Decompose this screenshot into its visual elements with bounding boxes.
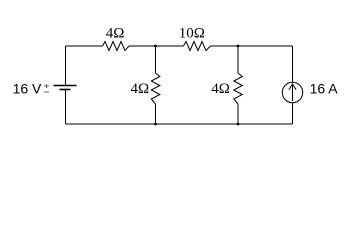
svg-text:4Ω: 4Ω	[211, 81, 230, 97]
svg-text:4Ω: 4Ω	[106, 25, 125, 41]
svg-text:10Ω: 10Ω	[179, 25, 205, 41]
svg-text:4Ω: 4Ω	[131, 81, 150, 97]
svg-text:16 A: 16 A	[310, 81, 339, 97]
svg-text:16 V: 16 V	[13, 81, 42, 97]
